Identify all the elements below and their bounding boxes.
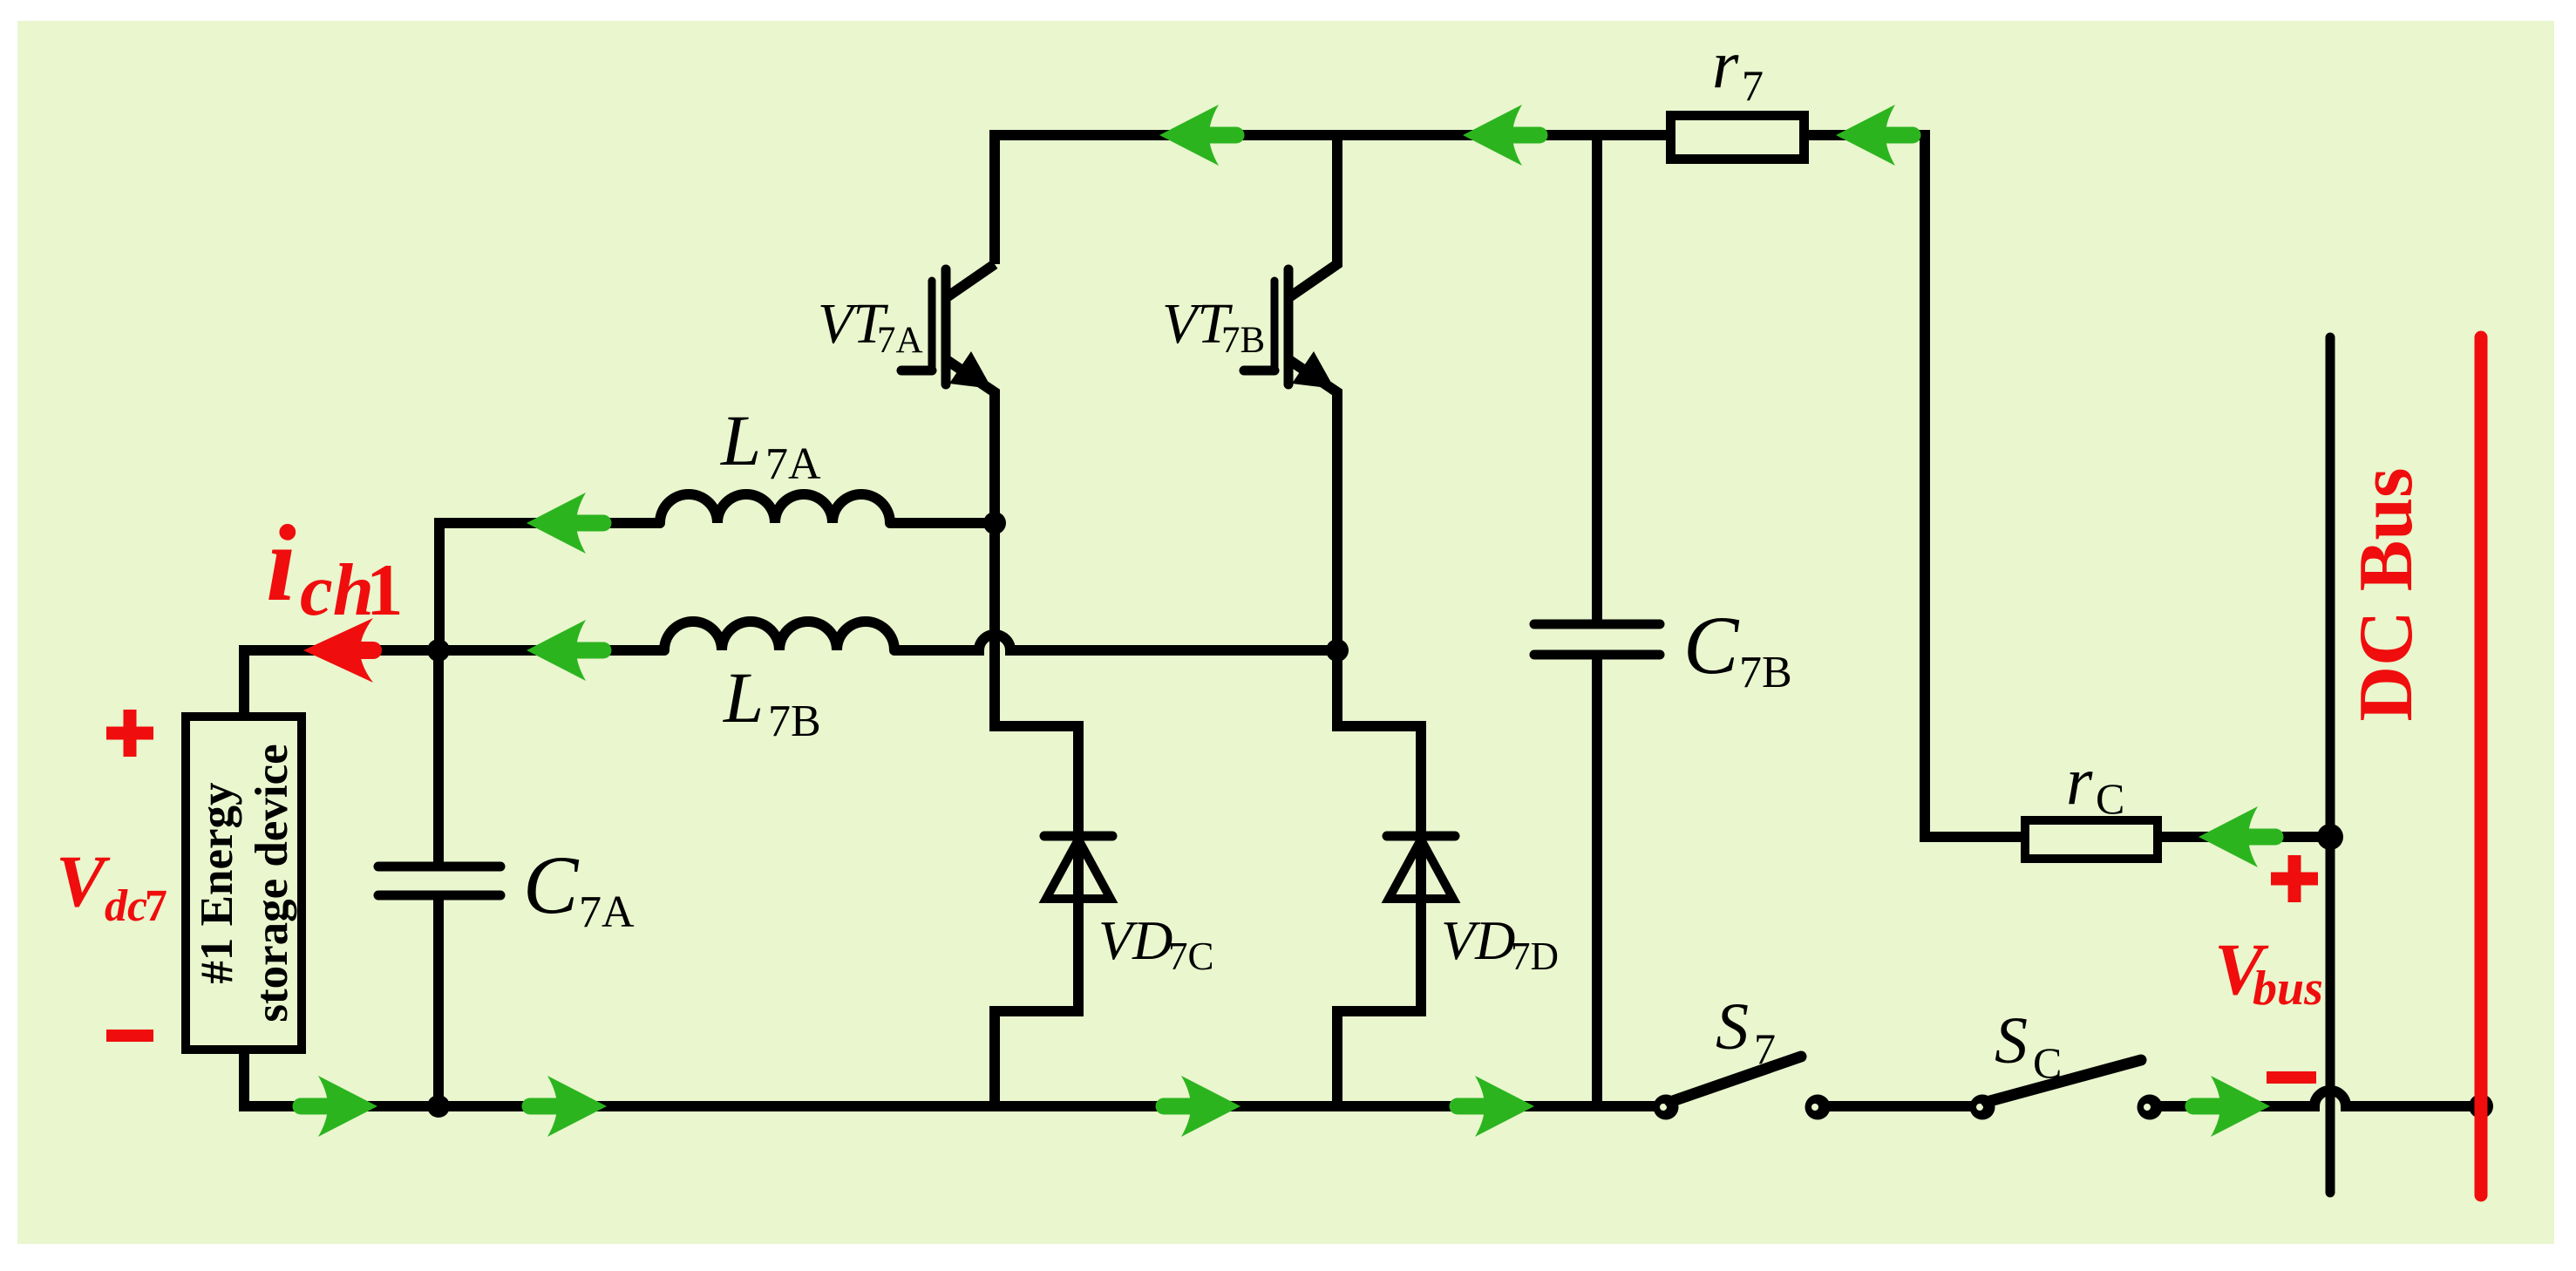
svg-text:S: S — [1716, 990, 1749, 1064]
svg-text:DC Bus: DC Bus — [2344, 468, 2429, 722]
arrow on rC wire — [2199, 806, 2275, 867]
arrow on L7A branch — [527, 493, 603, 554]
switch SC — [1970, 1095, 1995, 1120]
junction node dots — [427, 512, 2493, 1118]
arrow on top rail mid — [1463, 105, 1539, 166]
svg-text:7A: 7A — [579, 887, 635, 937]
wire: bottom rail right of SC with hop over bus stub — [2150, 1091, 2481, 1106]
svg-text:C: C — [2033, 1038, 2062, 1087]
wire: VT7B collector lead — [1289, 135, 1337, 297]
wire: C7A lower branch — [433, 895, 444, 1106]
arrow bottom rail 2 — [530, 1076, 607, 1137]
bus + — [2288, 855, 2301, 902]
node: L7B / VT7B emitter — [1326, 639, 1349, 662]
svg-text:i: i — [266, 504, 296, 624]
svg-text:V: V — [56, 840, 111, 922]
arrow on L7B branch — [527, 620, 603, 681]
svg-text:L: L — [720, 400, 761, 480]
node: C7A bottom — [427, 1095, 450, 1118]
transistor VT7A (IGBT) — [901, 269, 946, 384]
arrow bottom rail 1 — [301, 1076, 377, 1137]
svg-text:7B: 7B — [1739, 648, 1792, 697]
svg-text:7B: 7B — [768, 697, 821, 746]
main black wires — [244, 135, 2481, 1106]
arrow bottom rail 3 — [1164, 1076, 1240, 1137]
node: L7A / VT7A emitter — [983, 512, 1006, 534]
resistor r7 body — [1671, 116, 1805, 160]
wire: VT7B emitter lead down to VD7D and bottom rail — [1289, 360, 1421, 1106]
wire: C7B upper branch — [1592, 135, 1602, 624]
svg-text:7: 7 — [1742, 61, 1764, 110]
svg-text:VD: VD — [1441, 909, 1515, 971]
resistor rC body — [2025, 820, 2158, 859]
arrow bottom rail 5 — [2193, 1076, 2270, 1137]
wire: C7B lower branch — [1592, 655, 1602, 1106]
wire: L7A branch left vertical — [439, 523, 660, 650]
red ich1 current arrow — [303, 618, 373, 683]
switch S7 — [1654, 1095, 1679, 1120]
svg-text:r: r — [2066, 743, 2093, 819]
svg-text:7A: 7A — [877, 320, 923, 361]
arrow on top rail left — [1159, 105, 1236, 166]
wire: bottom rail between switches — [1818, 1101, 1982, 1111]
diode VD7D — [1387, 836, 1455, 899]
svg-text:bus: bus — [2253, 962, 2323, 1016]
svg-text:1: 1 — [366, 549, 404, 631]
svg-text:r: r — [1712, 26, 1739, 102]
wire: energy device top lead — [244, 650, 664, 712]
bus - — [2267, 1071, 2316, 1084]
svg-text:C: C — [523, 839, 580, 931]
node: rC / bus stub — [2317, 824, 2343, 850]
wire: energy device bottom lead — [244, 1054, 1666, 1106]
DC Bus red bar — [2475, 337, 2488, 1195]
arrow on top rail right of r7 — [1836, 105, 1913, 166]
wire: VT7A emitter lead down to VD7C and bottom rail — [947, 360, 1078, 1106]
svg-text:S: S — [1995, 1004, 2028, 1077]
capacitor C7B plates — [1534, 624, 1660, 655]
wire: VT7A collector lead — [947, 264, 995, 297]
red polarity marks: device + — [106, 710, 2318, 1084]
inductor L7B coil — [664, 622, 894, 650]
svg-text:L: L — [723, 657, 764, 737]
svg-text:7D: 7D — [1511, 935, 1559, 978]
capacitor C7A plates — [378, 867, 500, 895]
svg-text:ch: ch — [300, 549, 374, 631]
svg-text:C: C — [1683, 599, 1740, 691]
svg-text:7: 7 — [1754, 1024, 1776, 1073]
energy storage device box — [186, 717, 302, 1050]
svg-text:VD: VD — [1098, 909, 1172, 971]
arrow bottom rail 4 — [1458, 1076, 1534, 1137]
node: ich1 junction — [427, 639, 450, 662]
transistor VT7B (IGBT) — [1244, 269, 1288, 384]
svg-text:7B: 7B — [1221, 320, 1265, 361]
node: bottom rail on DC bus — [2469, 1094, 2493, 1118]
wire: top rail from VT7A collector corner to r7, corner down right side, to rC and V+ node — [995, 135, 2330, 837]
wire: main middle rail with hop over VT7A emitter line — [894, 635, 1337, 650]
wire: C7A upper branch — [433, 650, 444, 867]
wire: L7A coil-to-node segment — [890, 518, 995, 528]
svg-text:7A: 7A — [765, 439, 821, 489]
svg-text:dc: dc — [105, 881, 147, 931]
device - — [106, 1030, 153, 1042]
svg-text:7: 7 — [145, 881, 167, 931]
svg-text:C: C — [2096, 774, 2124, 823]
diode VD7C — [1044, 836, 1112, 899]
svg-text:7C: 7C — [1168, 935, 1214, 978]
V_bus measurement stub (black vertical line) — [2326, 337, 2335, 1193]
inductor L7A coil — [660, 494, 890, 523]
